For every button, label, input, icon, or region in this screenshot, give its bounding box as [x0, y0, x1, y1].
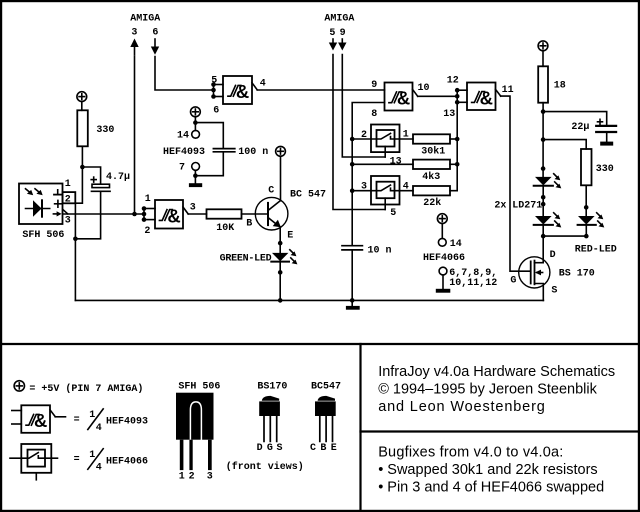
- pin AMIGA pin 5 arrow (down): [329, 39, 337, 51]
- svg-text:and Leon Woestenberg: and Leon Woestenberg: [378, 399, 546, 415]
- svg-text:18: 18: [554, 81, 566, 92]
- photodiode inside SFH 506: [26, 200, 50, 216]
- pin symbols inside SFH 506: gnd, plus, out-arrow: [53, 190, 61, 217]
- svg-text:2x: 2x: [494, 200, 506, 211]
- svg-text:SFH 506: SFH 506: [178, 382, 220, 393]
- node AMIGA connector 2 label: [324, 14, 354, 40]
- svg-text:10K: 10K: [216, 223, 234, 234]
- capacitor C3 10n plates: [342, 246, 362, 250]
- svg-text:G: G: [267, 443, 273, 454]
- svg-text:S: S: [551, 286, 557, 297]
- analog switch U2B HEF4066 pins 3,4 ctl 5: [352, 176, 413, 205]
- node SFH pin 2 connection frame: [63, 192, 76, 203]
- svg-text:D: D: [257, 443, 263, 454]
- node junction dots at U1C inputs: [455, 88, 460, 105]
- pin AMIGA pin 3 arrow (up): [130, 39, 138, 56]
- pin labels 1 2 3 of U1D: [144, 194, 195, 237]
- LED D2 emission arrows: [554, 174, 562, 189]
- svg-text:14: 14: [177, 131, 189, 142]
- svg-text:5: 5: [390, 208, 396, 219]
- wire R6 bottom down to LED chain: [542, 103, 544, 177]
- node title block text: [378, 364, 615, 415]
- op-amp U1D HEF4093 NAND gate pins 1,2 out 3: [155, 200, 188, 229]
- svg-text:11: 11: [502, 85, 514, 96]
- pin AMIGA pin 9 arrow (down): [338, 39, 346, 51]
- wire C3 bottom to ground rail: [351, 250, 353, 301]
- wire branch to C4 22u: [543, 112, 607, 125]
- power +5V symbol above R6 18: [538, 41, 548, 51]
- node AMIGA connector 1 label: [130, 14, 160, 39]
- wire left switch rail down to C3: [351, 139, 353, 246]
- node junction dot 7/100n: [193, 173, 198, 178]
- power +5V symbol above HEF4093: [191, 107, 201, 117]
- resistor R2 10K horizontal: [207, 209, 242, 218]
- wire D4 cathode down to drain net: [585, 225, 587, 236]
- wire +5V to Q1 collector: [280, 156, 282, 200]
- wire U1D input stubs pins 1,2: [144, 209, 155, 220]
- power +5V legend symbol: [14, 381, 24, 391]
- svg-text:3: 3: [131, 28, 137, 39]
- wire right rail down to R5: [450, 139, 457, 191]
- svg-text:LD271: LD271: [512, 200, 542, 211]
- ground rail bottom of schematic: [75, 299, 543, 301]
- labels 14 HEF4066: [423, 239, 465, 264]
- resistor R1 330 vertical: [77, 110, 88, 146]
- svg-text:4: 4: [96, 423, 102, 434]
- svg-text:22k: 22k: [423, 197, 441, 209]
- LED D4 emission arrows: [597, 213, 605, 228]
- wire U1C input stubs pins 12,13: [457, 90, 467, 102]
- transistor Q1 BC547: [255, 197, 288, 230]
- ground symbol below C4: [600, 133, 613, 146]
- node junction dot C3/rail: [350, 298, 355, 303]
- svg-text:BC547: BC547: [311, 381, 341, 392]
- resistor R6 18 vertical: [538, 66, 548, 102]
- output slash at SFH pin 3: [63, 210, 68, 214]
- svg-text:SFH 506: SFH 506: [22, 230, 64, 241]
- wire +5V to R6: [542, 51, 544, 67]
- svg-text:1: 1: [89, 410, 95, 421]
- svg-text:7: 7: [179, 163, 185, 174]
- node junction dot at ground drop: [73, 237, 78, 242]
- wire AMIGA pin 5 down then right to switch U2B control pin 5: [333, 55, 385, 210]
- svg-text:12: 12: [447, 76, 459, 87]
- pin HEF4093 pin 14 open circle: [192, 130, 200, 138]
- svg-text:9: 9: [340, 28, 346, 39]
- op-amp U1A HEF4093 NAND gate pins 5,6 out 4: [223, 76, 257, 104]
- pin labels 1 2 3 of SFH 506: [65, 179, 71, 227]
- svg-text:9: 9: [371, 80, 377, 91]
- svg-text:8: 8: [371, 109, 377, 120]
- package pin labels D G S: [257, 443, 283, 454]
- incoming IR arrows: [26, 189, 43, 195]
- wire R1 bottom down to SFH pin2 box: [75, 146, 82, 203]
- wire D3 cathode down to Q2 drain: [542, 225, 544, 263]
- wire U1A input stubs pins 5,6: [214, 85, 224, 97]
- power +5V symbol above R1 330: [77, 92, 87, 102]
- wire R4 right to node: [450, 163, 457, 165]
- node junction dots between LEDs: [541, 195, 546, 206]
- pin HEF4066 pin 14 open circle: [438, 238, 446, 246]
- svg-text:4k3: 4k3: [422, 171, 440, 183]
- svg-text:10 n: 10 n: [368, 246, 392, 257]
- node junction dot emitter: [278, 241, 283, 246]
- wire main signal net SFH out to U1D inputs: [63, 213, 144, 215]
- LED D1 emission arrows: [290, 250, 298, 265]
- package drawing BS170 front view: [257, 381, 287, 441]
- legend NAND gate symbol HEF4093: [12, 405, 66, 433]
- wire branch to 100n top: [195, 123, 223, 148]
- svg-text:5: 5: [211, 75, 217, 86]
- pin HEF4066 unused pins open circle: [439, 267, 447, 275]
- wire C1 bottom down and left to ground drop: [75, 191, 100, 239]
- svg-text:6: 6: [152, 28, 158, 39]
- svg-text:BS 170: BS 170: [559, 269, 595, 280]
- LED D4 RED-LED: [578, 216, 596, 225]
- op-amp U1B HEF4093 NAND gate pins 9,8 out 10: [385, 83, 418, 111]
- pin labels 5 6 4 of U1A: [211, 75, 266, 116]
- svg-text:13: 13: [390, 157, 402, 168]
- wire R7 bottom to red LED: [585, 185, 587, 216]
- wire tie bar U1C inputs and drop to resistor net: [456, 90, 458, 139]
- wire Q1 emitter down to LED D1: [279, 227, 281, 253]
- svg-text:=: =: [74, 455, 80, 466]
- node junction dot AMIGA3/main: [132, 212, 137, 217]
- svg-text:14: 14: [450, 239, 462, 250]
- wire +5V to R1: [81, 102, 83, 111]
- wire SFH pin2 box down to ground rail corner: [74, 203, 76, 300]
- pin AMIGA pin 6 arrow (down): [151, 39, 159, 55]
- svg-text:RED-LED: RED-LED: [575, 245, 617, 256]
- svg-text:13: 13: [443, 109, 455, 120]
- svg-text:HEF4093: HEF4093: [106, 417, 148, 428]
- svg-text:330: 330: [96, 125, 114, 136]
- wire R3 right to node: [450, 138, 457, 140]
- wire U2A control pin 13 stub: [384, 147, 386, 158]
- svg-text:Bugfixes from v4.0 to v4.0a:: Bugfixes from v4.0 to v4.0a:: [378, 445, 563, 461]
- svg-text:3: 3: [65, 215, 71, 226]
- svg-text:3: 3: [207, 472, 213, 483]
- ground symbol below rail at C3: [346, 300, 360, 309]
- svg-text:2: 2: [189, 472, 195, 483]
- legend equals quarter HEF4093: [74, 410, 102, 434]
- package pin labels C B E: [310, 443, 337, 454]
- svg-text:5: 5: [329, 28, 335, 39]
- wire U1A output 4 to U1B input 9: [257, 89, 384, 91]
- wire U1D output 3 to R2: [188, 213, 206, 215]
- LED D2 LD271 infrared top: [534, 177, 553, 186]
- wire +5V to pin 14 with branch to 100n: [194, 117, 196, 131]
- svg-text:10,11,12: 10,11,12: [449, 278, 497, 289]
- svg-text:E: E: [331, 443, 337, 454]
- svg-text:4: 4: [96, 463, 102, 474]
- capacitor C1 4.7u electrolytic: [91, 177, 110, 191]
- wire between D2 and D3: [542, 186, 544, 216]
- svg-text:HEF4066: HEF4066: [106, 456, 148, 467]
- svg-text:C: C: [310, 443, 316, 454]
- resistor R4 4k3: [413, 160, 450, 169]
- svg-text:G: G: [510, 275, 516, 286]
- labels 2x LD271: [494, 200, 542, 211]
- svg-text:• Pin 3 and 4 of HEF4066 swapp: • Pin 3 and 4 of HEF4066 swapped: [378, 480, 604, 496]
- wire branch to R7 330: [543, 140, 586, 149]
- node junction dot 14/100n: [193, 120, 198, 125]
- svg-text:2: 2: [361, 130, 367, 141]
- wire +5V to HEF4066 pin 14: [441, 224, 443, 239]
- svg-text:22µ: 22µ: [571, 122, 589, 133]
- svg-text:• Swapped 30k1 and 22k resisto: • Swapped 30k1 and 22k resistors: [378, 462, 597, 478]
- node junction dot above red LED: [584, 205, 589, 210]
- wire AMIGA pin 9 down then right to switch U2A control pin 13: [342, 55, 385, 158]
- fraction slash: [88, 409, 103, 430]
- node junction dots on right rail: [455, 137, 460, 167]
- node bugfix block text: [378, 445, 604, 496]
- svg-text:BS170: BS170: [257, 381, 287, 392]
- wire joining LED cathodes: [543, 235, 586, 237]
- svg-text:GREEN-LED: GREEN-LED: [220, 253, 272, 264]
- IR receiver U3 SFH 506 box: [19, 184, 63, 225]
- svg-text:1: 1: [403, 129, 409, 140]
- svg-text:E: E: [287, 231, 293, 242]
- resistor R3 30k1: [413, 134, 450, 143]
- svg-text:4: 4: [403, 182, 409, 193]
- wire U1B input 8 left and down to switch net: [352, 103, 384, 140]
- LED D3 LD271 infrared bottom: [534, 216, 553, 225]
- package drawing BC547 front view: [311, 381, 341, 441]
- svg-text:HEF4066: HEF4066: [423, 253, 465, 264]
- svg-text:(front views): (front views): [226, 461, 304, 473]
- svg-text:2: 2: [144, 226, 150, 237]
- svg-text:B: B: [320, 443, 326, 454]
- labels HEF4066 unused pins: [449, 268, 497, 289]
- svg-text:InfraJoy v4.0a Hardware Schema: InfraJoy v4.0a Hardware Schematics: [378, 364, 615, 380]
- power +5V symbol for HEF4066 pin 14: [437, 214, 447, 224]
- analog switch U2A HEF4066 pins 2,1 ctl 13: [352, 125, 413, 153]
- wire U1B output 10 to U1C inputs: [418, 95, 458, 97]
- wire U1C output 11 right then down to MOSFET gate: [501, 96, 531, 271]
- pin labels 9 8 10 of U1B: [371, 80, 429, 120]
- legend equals quarter HEF4066: [74, 450, 102, 474]
- capacitor C4 22u: [596, 126, 616, 132]
- labels C B E BC 547: [246, 185, 326, 241]
- svg-text:AMIGA: AMIGA: [130, 14, 160, 25]
- wire U2B control pin 5 stub: [384, 198, 386, 209]
- capacitor C2 100n plates: [213, 149, 234, 152]
- resistor R7 330 vertical: [581, 149, 592, 185]
- svg-text:1: 1: [89, 450, 95, 461]
- ground symbol for HEF4066 unused pins: [436, 275, 451, 293]
- node junction dots at U1D inputs: [142, 206, 147, 222]
- node junction dots at cathode join: [541, 234, 589, 239]
- LED D3 emission arrows: [554, 213, 562, 228]
- svg-text:C: C: [268, 185, 274, 196]
- node junction dots at U1A inputs: [211, 82, 216, 99]
- op-amp U1C HEF4093 NAND gate pins 12,13 out 11: [467, 83, 501, 111]
- wire pin 7 to ground with branch to 100n bottom: [195, 153, 223, 184]
- svg-text:30k1: 30k1: [421, 146, 445, 158]
- svg-text:3: 3: [361, 182, 367, 193]
- package pin labels 1 2 3: [179, 472, 213, 483]
- legend analog switch symbol HEF4066: [10, 444, 58, 480]
- wire D1 cathode to ground rail: [279, 262, 281, 301]
- wire tie bar U1A inputs: [213, 85, 215, 97]
- resistor R5 22k: [413, 186, 450, 195]
- plus mark of C4: [598, 119, 603, 124]
- wire AMIGA pin 3 down to main input net: [134, 57, 136, 215]
- node junction dots on LED rail top: [541, 109, 546, 171]
- svg-text:1: 1: [145, 194, 151, 205]
- transistor Q2 BS170 MOSFET: [519, 257, 550, 301]
- wire R2 to Q1 base: [242, 213, 269, 215]
- svg-text:S: S: [277, 443, 283, 454]
- svg-text:=: =: [74, 415, 80, 426]
- wire tie bar U1D inputs: [143, 209, 145, 220]
- svg-text:4: 4: [260, 79, 266, 90]
- svg-text:4.7µ: 4.7µ: [106, 172, 130, 183]
- svg-text:= +5V (PIN 7 AMIGA): = +5V (PIN 7 AMIGA): [29, 383, 143, 395]
- power +5V symbol above Q1 collector: [276, 146, 286, 156]
- pin labels 12 13 11 of U1C: [443, 76, 513, 120]
- svg-text:BC 547: BC 547: [290, 190, 326, 201]
- value labels 14 HEF4093 7 100n: [163, 131, 268, 174]
- pin labels 2 1 13 of U2A: [361, 129, 409, 167]
- svg-text:B: B: [246, 218, 252, 229]
- wire middle net to R4: [352, 163, 413, 165]
- svg-text:© 1994–1995 by Jeroen Steenbli: © 1994–1995 by Jeroen Steenblik: [378, 382, 597, 398]
- svg-text:1: 1: [65, 179, 71, 190]
- svg-text:330: 330: [596, 164, 614, 175]
- svg-text:6: 6: [213, 106, 219, 117]
- fraction slash 2: [88, 449, 103, 470]
- package drawing SFH 506 front view: [176, 382, 220, 471]
- wire AMIGA pin 6 down then right to gate U1A inputs: [155, 57, 214, 91]
- node junction dots on left switch rail: [350, 137, 355, 193]
- svg-text:HEF4093: HEF4093: [163, 147, 205, 158]
- ground symbol below HEF4093 pin 7: [189, 183, 202, 187]
- LED D1 GREEN-LED: [271, 253, 289, 262]
- wire branch to C1 top: [82, 167, 100, 184]
- labels D G S BS 170: [510, 250, 594, 297]
- svg-text:3: 3: [190, 203, 196, 214]
- node junction dot R1/C1: [80, 165, 85, 170]
- pin HEF4093 pin 7 open circle: [192, 163, 200, 171]
- svg-text:10: 10: [418, 83, 430, 94]
- svg-text:D: D: [550, 250, 556, 261]
- node junction dots below D1 and on rail: [278, 270, 283, 303]
- svg-text:100 n: 100 n: [238, 147, 268, 158]
- svg-text:1: 1: [179, 472, 185, 483]
- pin labels 3 4 5 of U2B: [361, 182, 409, 219]
- svg-text:AMIGA: AMIGA: [324, 14, 354, 25]
